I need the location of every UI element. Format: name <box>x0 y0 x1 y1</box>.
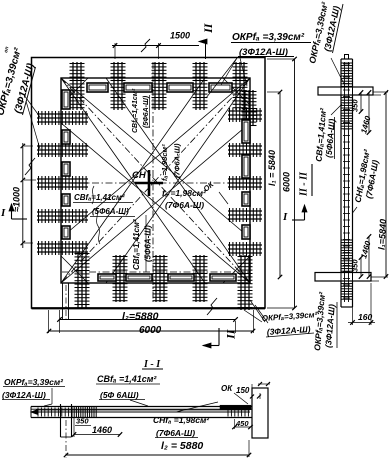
svg-text:1460: 1460 <box>92 425 112 435</box>
svg-text:(5Ф 6АШ): (5Ф 6АШ) <box>100 390 139 400</box>
svg-text:I - I: I - I <box>143 359 161 370</box>
svg-text:(5Ф6А-Ш): (5Ф6А-Ш) <box>144 225 153 262</box>
svg-text:СВfₐ=1,41см²: СВfₐ=1,41см² <box>132 219 141 270</box>
svg-text:ОКРfₐ=3,39см²: ОКРfₐ=3,39см² <box>4 377 64 387</box>
svg-text:(3Ф12А-Ш): (3Ф12А-Ш) <box>2 390 46 400</box>
svg-text:fₐ=1,98см²: fₐ=1,98см² <box>160 144 169 181</box>
svg-text:СВfₐ=1,41см²: СВfₐ=1,41см² <box>74 193 125 202</box>
svg-text:350: 350 <box>351 99 360 112</box>
svg-text:l₂=5880: l₂=5880 <box>122 311 159 323</box>
svg-text:350: 350 <box>351 259 360 272</box>
svg-text:СН: СН <box>132 170 147 181</box>
svg-text:l₂ = 5880: l₂ = 5880 <box>161 440 203 452</box>
svg-text:II: II <box>224 328 238 340</box>
svg-text:6000: 6000 <box>139 325 162 336</box>
svg-text:(5Ф6А-Ш): (5Ф6А-Ш) <box>143 95 150 128</box>
svg-text:(7Ф6А-Ш): (7Ф6А-Ш) <box>156 428 195 438</box>
svg-text:II: II <box>202 22 216 34</box>
svg-text:350: 350 <box>76 417 89 426</box>
svg-text:160: 160 <box>358 312 372 322</box>
svg-text:l₁ = 5840: l₁ = 5840 <box>267 150 277 186</box>
svg-text:II - II: II - II <box>299 171 310 197</box>
svg-text:(7Ф6А-Ш): (7Ф6А-Ш) <box>165 200 204 210</box>
svg-text:СВfₐ=1,41см²: СВfₐ=1,41см² <box>132 88 139 133</box>
svg-text:6000: 6000 <box>282 172 292 192</box>
svg-text:1500: 1500 <box>170 31 190 41</box>
svg-text:I: I <box>0 207 6 219</box>
svg-text:450: 450 <box>235 419 249 428</box>
svg-text:fₐ =1,98см²: fₐ =1,98см² <box>162 188 207 198</box>
svg-text:(7Ф6А-Ш): (7Ф6А-Ш) <box>173 143 182 178</box>
svg-text:l₁=5840: l₁=5840 <box>377 219 389 250</box>
svg-text:СВfₐ =1,41см²: СВfₐ =1,41см² <box>97 374 157 384</box>
svg-text:I: I <box>282 211 288 223</box>
svg-text:ОК: ОК <box>221 384 233 393</box>
svg-text:СНfₐ =1,98см²: СНfₐ =1,98см² <box>153 415 210 425</box>
svg-text:150: 150 <box>236 386 250 395</box>
svg-text:ОКРfₐ =3,39см²: ОКРfₐ =3,39см² <box>232 32 305 43</box>
